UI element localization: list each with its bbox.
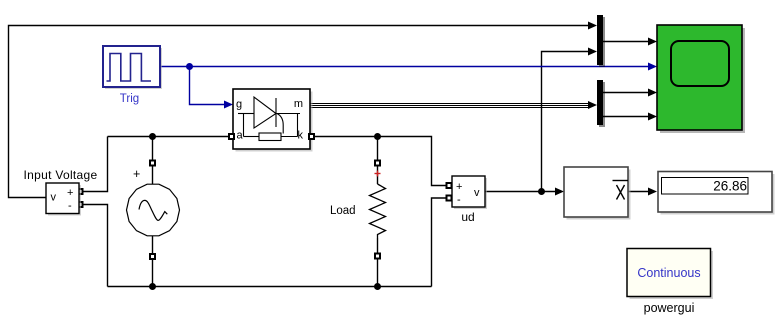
svg-text:+: + [133,167,140,181]
svg-text:v: v [474,187,480,199]
svg-text:g: g [236,99,242,111]
svg-text:Load: Load [330,205,356,217]
svg-text:+: + [456,181,462,193]
svg-text:Trig: Trig [120,93,139,105]
svg-text:powergui: powergui [644,301,695,315]
svg-text:a: a [237,130,244,142]
svg-text:k: k [298,130,304,142]
svg-text:Input Voltage: Input Voltage [24,168,98,182]
svg-text:-: - [68,200,72,212]
svg-text:ud: ud [461,210,474,224]
svg-text:m: m [294,98,303,110]
svg-text:Continuous: Continuous [637,266,700,280]
svg-text:v: v [51,192,57,204]
svg-text:+: + [67,187,73,199]
svg-text:26.86: 26.86 [713,179,747,194]
svg-text:-: - [457,194,461,206]
